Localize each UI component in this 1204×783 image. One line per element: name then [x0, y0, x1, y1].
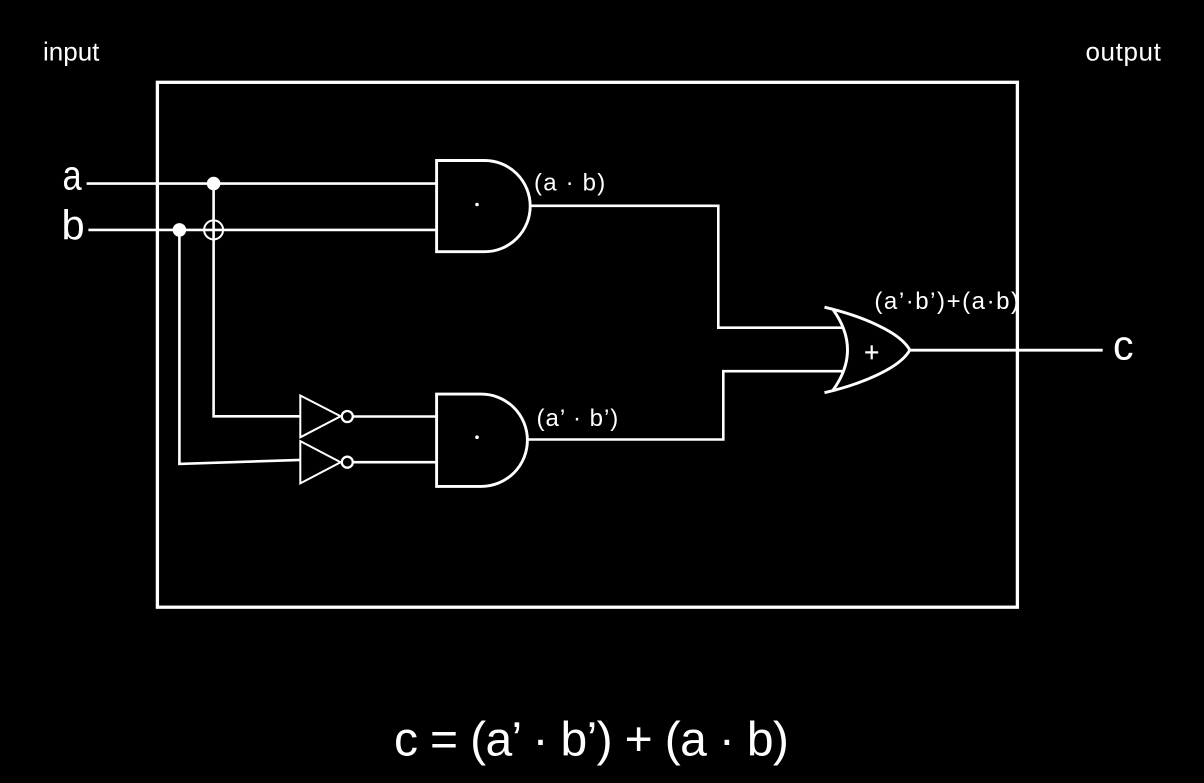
- wire G1 output to OR gate: [530, 206, 843, 328]
- NOT gate N2 (inverts b): [300, 441, 340, 483]
- AND gate G2 dot operator: [475, 435, 479, 439]
- junction dot on b wire: [173, 223, 187, 237]
- wire N2 output: [353, 461, 437, 464]
- NOT gate N1 bubble: [342, 411, 353, 422]
- wire b input: [88, 229, 436, 232]
- svg-text:c = (a’ · b’) + (a · b): c = (a’ · b’) + (a · b): [394, 714, 788, 767]
- circuit boundary box: [157, 82, 1017, 607]
- AND gate G1 dot operator: [475, 203, 479, 207]
- OR gate G3: [825, 307, 910, 393]
- wire b branch vertical: [179, 230, 300, 464]
- AND gate G2 (a' AND b'): [437, 394, 528, 486]
- AND gate G1 (a AND b): [437, 160, 531, 251]
- crossover circle at a-b crossing: [204, 220, 223, 239]
- wire G2 output to OR gate: [527, 371, 843, 439]
- svg-text:c: c: [1113, 321, 1134, 368]
- wire N1 output: [353, 415, 437, 418]
- wire a branch vertical: [214, 184, 301, 417]
- junction dot on a wire: [207, 177, 221, 191]
- svg-text:input: input: [43, 37, 100, 67]
- wire output c: [910, 349, 1103, 352]
- NOT gate N2 bubble: [342, 457, 353, 468]
- svg-text:b: b: [62, 201, 85, 248]
- svg-text:(a’ · b’): (a’ · b’): [537, 405, 620, 432]
- wire a input: [87, 182, 437, 185]
- OR gate G3 plus operator: [865, 345, 878, 359]
- svg-text:(a’·b’)+(a·b): (a’·b’)+(a·b): [874, 288, 1020, 315]
- svg-text:(a · b): (a · b): [534, 170, 606, 197]
- NOT gate N1 (inverts a): [300, 396, 340, 438]
- svg-text:a: a: [63, 152, 83, 199]
- svg-text:output: output: [1086, 37, 1162, 67]
